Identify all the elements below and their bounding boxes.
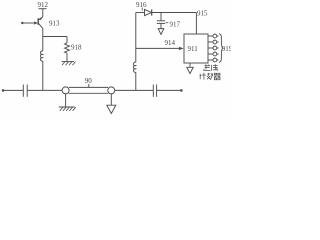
input terminal dot on main line (2, 89, 5, 92)
wire resistor to ground (66, 53, 68, 61)
power terminal 912 (39, 8, 47, 10)
wire down to resistor (66, 37, 68, 43)
node branch to R918 (43, 36, 67, 38)
wire left electrode to ground (65, 94, 67, 107)
wire L1 to main line (42, 61, 44, 90)
text counter (drawn CJK: ji shu qi) (200, 73, 221, 80)
svg-text:919: 919 (222, 45, 231, 53)
input terminal dot (21, 22, 23, 24)
pin 5 (208, 58, 219, 62)
wire C1 to SAW (27, 89, 62, 91)
base lead arrowhead (34, 21, 38, 24)
svg-text:914: 914 (165, 39, 176, 47)
svg-text:915: 915 (197, 10, 208, 18)
wire 915 down to box (195, 13, 197, 35)
transistor Q913 collector (39, 17, 43, 20)
capacitor C917 (157, 21, 165, 24)
wire L2 up to junction (135, 13, 137, 63)
svg-text:912: 912 (38, 1, 49, 9)
SAW filter 90 right electrode circle (108, 87, 115, 94)
diode D916 (145, 9, 152, 15)
wire base lead (22, 22, 34, 24)
leader line 917 (166, 22, 169, 24)
pin 4 (208, 52, 219, 56)
svg-text:913: 913 (49, 20, 60, 28)
transistor Q913 collector arrowhead (39, 17, 42, 20)
wire top to diode (136, 12, 145, 14)
text connect (drawn CJK: lian jie) (203, 64, 218, 71)
wire SAW to C2 (115, 89, 154, 91)
svg-text:916: 916 (136, 1, 147, 9)
pin 1 (208, 34, 219, 38)
wire C2 to output terminal (157, 89, 181, 91)
ground under R918 (62, 62, 76, 66)
inductor L1 (40, 51, 42, 61)
wire 914 (136, 47, 180, 49)
SAW filter 90 left electrode circle (62, 87, 69, 94)
inductor L2 (133, 62, 135, 72)
open triangle ground under box (187, 67, 193, 73)
capacitor C2 (153, 85, 156, 97)
wire C917 to arrow (160, 23, 162, 28)
transistor Q913 emitter (39, 23, 43, 28)
wire collector to supply (42, 9, 44, 17)
open triangle ground right electrode (107, 105, 116, 113)
wire C917 stem (160, 13, 162, 21)
wire box bottom stem (189, 63, 191, 67)
svg-text:917: 917 (170, 21, 181, 29)
ground under left electrode (59, 107, 76, 111)
pin 2 (208, 40, 219, 44)
wire right column (135, 72, 137, 90)
capacitor C1 (23, 85, 27, 97)
brace pins 919 (219, 34, 223, 63)
output terminal dot (180, 89, 183, 92)
pin 3 (208, 46, 219, 50)
SAW filter 90 body (69, 87, 108, 93)
svg-text:918: 918 (71, 44, 82, 52)
svg-text:90: 90 (85, 77, 93, 85)
wire emitter down (42, 28, 44, 51)
wire right electrode down (110, 94, 112, 105)
wire main line left (3, 89, 23, 91)
wire diode to corner 915 (152, 12, 197, 14)
resistor R918 (65, 43, 70, 53)
transistor Q913 base bar (37, 18, 39, 25)
leader line 90 (88, 84, 90, 87)
leader line 916 (141, 8, 143, 11)
ground arrow under C917 (158, 29, 164, 35)
arrowhead 914 (179, 47, 184, 50)
svg-text:911: 911 (188, 45, 199, 53)
IC U911 box (184, 34, 208, 63)
